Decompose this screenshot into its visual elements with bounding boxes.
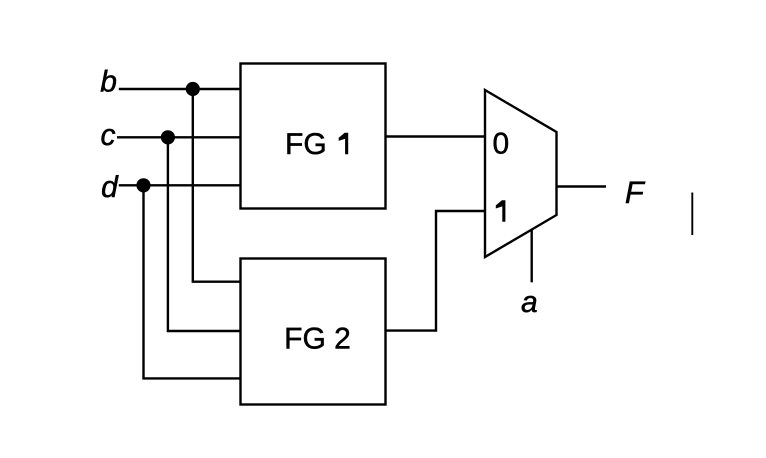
wire d drop to FG2 [144, 185, 241, 378]
wire FG2 output to mux input 1 [386, 211, 486, 331]
wire F output [557, 185, 607, 187]
box FG1 [241, 64, 386, 209]
wire FG1 output to mux input 0 [386, 135, 486, 137]
junction dot on d [136, 178, 150, 192]
wire a select [531, 230, 533, 283]
digit 1 of FG 1 [339, 133, 349, 155]
mux U1 trapezoid [485, 90, 557, 257]
svg-text:a: a [521, 286, 538, 319]
wire b drop to FG2 [193, 89, 241, 282]
wire c horizontal [117, 136, 241, 138]
wire b horizontal [119, 88, 241, 90]
junction dot on c [161, 130, 175, 144]
wire d horizontal [119, 184, 241, 186]
wire c drop to FG2 [168, 137, 241, 331]
svg-text:d: d [101, 171, 119, 204]
svg-text:F: F [625, 175, 646, 210]
junction dot on b [186, 82, 200, 96]
box FG2 [241, 259, 386, 405]
mux pin label 1 [496, 200, 506, 222]
cursor bar [691, 193, 693, 236]
svg-text:FG: FG [285, 128, 327, 161]
svg-text:c: c [101, 119, 116, 152]
svg-text:0: 0 [492, 127, 509, 160]
svg-text:FG 2: FG 2 [284, 323, 351, 356]
svg-text:b: b [100, 66, 117, 99]
